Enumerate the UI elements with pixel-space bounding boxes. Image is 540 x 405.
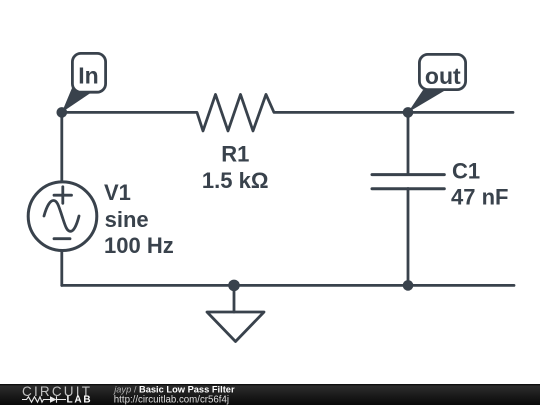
svg-text:LAB: LAB [67, 395, 93, 405]
svg-text:100 Hz: 100 Hz [104, 233, 174, 258]
svg-text:jayp / Basic Low Pass Filter: jayp / Basic Low Pass Filter [112, 385, 235, 395]
svg-text:In: In [78, 63, 98, 89]
svg-text:C1: C1 [452, 158, 480, 183]
svg-text:http://circuitlab.com/cr56f4j: http://circuitlab.com/cr56f4j [114, 395, 229, 405]
svg-text:sine: sine [105, 207, 149, 232]
svg-text:V1: V1 [104, 180, 131, 205]
svg-text:R1: R1 [221, 141, 249, 166]
svg-text:out: out [425, 63, 461, 89]
svg-text:1.5 kΩ: 1.5 kΩ [202, 168, 269, 193]
svg-text:47 nF: 47 nF [451, 184, 508, 209]
